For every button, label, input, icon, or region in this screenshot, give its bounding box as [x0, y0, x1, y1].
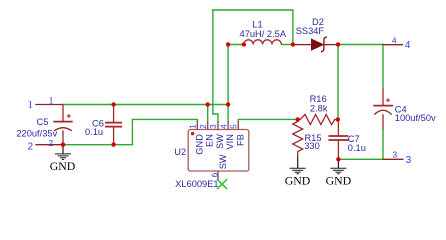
svg-text:SS34F: SS34F	[296, 26, 325, 36]
wire output drop to C4 top	[382, 45, 384, 89]
svg-text:6: 6	[211, 172, 220, 177]
ground symbol under C5	[55, 145, 71, 160]
wire EN drop to pin 2	[207, 105, 209, 122]
pin 4 lead	[227, 121, 229, 130]
capacitor C4	[373, 88, 393, 129]
junction inductor left	[242, 42, 246, 46]
pin 2 lead	[207, 121, 209, 130]
svg-text:1: 1	[49, 97, 54, 107]
svg-text:47uH/ 2.5A: 47uH/ 2.5A	[240, 29, 287, 39]
no-connect X on pin 6	[217, 179, 227, 189]
wire FB pin 5 to divider	[238, 119, 297, 121]
svg-text:220uf/35v: 220uf/35v	[16, 129, 57, 139]
pin 5 lead	[237, 121, 239, 130]
svg-text:C5: C5	[37, 117, 49, 127]
wire C4 bottom	[382, 129, 384, 160]
svg-text:GND: GND	[285, 174, 311, 188]
capacitor C6	[105, 105, 122, 145]
svg-text:4: 4	[219, 124, 228, 129]
junction diode anode	[291, 42, 295, 46]
wire inductor left stub	[228, 44, 244, 46]
inductor L1	[244, 40, 282, 45]
wire top rail SW net	[213, 9, 293, 11]
capacitor C7	[328, 120, 348, 160]
wire SW jog to pin 3	[213, 114, 218, 121]
resistor R16	[298, 115, 338, 125]
svg-text:R16: R16	[310, 94, 327, 104]
junction C5 bottom ground	[61, 143, 65, 147]
svg-text:EN: EN	[205, 134, 215, 147]
svg-text:3: 3	[406, 155, 412, 166]
svg-text:VIN: VIN	[225, 134, 235, 150]
terminal P2 lead	[36, 144, 63, 146]
wire output bottom rail	[338, 158, 383, 160]
junction R16 left FB	[296, 117, 300, 121]
terminal P3 lead	[383, 158, 403, 160]
wire VIN drop to pin 4	[227, 45, 229, 122]
junction C6 top	[111, 102, 115, 106]
svg-text:0.1u: 0.1u	[348, 143, 366, 153]
diode D2	[293, 37, 338, 52]
svg-text:U2: U2	[174, 147, 186, 157]
pin 6 lead	[217, 171, 219, 180]
svg-text:SW: SW	[215, 134, 225, 149]
op-amp U2 XL6009E1 body	[188, 130, 249, 172]
svg-text:2: 2	[199, 124, 208, 129]
svg-text:100uf/50v: 100uf/50v	[395, 113, 436, 123]
ground symbol under C7	[330, 159, 346, 174]
svg-text:0.1u: 0.1u	[85, 127, 103, 137]
terminal P4 lead	[383, 44, 403, 46]
junction C6 bottom	[111, 142, 115, 146]
wire input rail	[63, 104, 229, 106]
svg-text:4: 4	[405, 40, 411, 51]
svg-text:FB: FB	[235, 134, 245, 146]
svg-text:SW: SW	[218, 154, 228, 169]
svg-text:2: 2	[48, 138, 53, 148]
wire output rail	[338, 44, 383, 46]
svg-text:3: 3	[392, 150, 397, 160]
junction VIN/input rail	[226, 102, 230, 106]
junction EN/input rail	[206, 102, 210, 106]
svg-text:XL6009E1: XL6009E1	[175, 179, 218, 189]
pin 3 lead	[217, 121, 219, 130]
svg-text:1: 1	[28, 99, 34, 111]
svg-text:4: 4	[392, 36, 397, 46]
svg-text:5: 5	[230, 124, 239, 129]
junction R16 right	[336, 117, 340, 121]
wire ground rail to pin 1	[63, 119, 197, 144]
wire SW net left vertical	[212, 10, 214, 114]
wire inductor right to anode junction	[282, 44, 293, 46]
terminal P1 lead	[36, 104, 63, 106]
junction diode cathode	[336, 42, 340, 46]
pin 1 marker dot	[191, 132, 194, 135]
junction VIN drop top	[226, 42, 230, 46]
svg-text:3: 3	[209, 124, 218, 129]
svg-text:GND: GND	[194, 134, 204, 155]
wire SW net right drop to diode anode	[292, 10, 294, 45]
svg-text:2: 2	[28, 141, 34, 152]
junction C7 bottom rail	[336, 157, 340, 161]
svg-text:GND: GND	[50, 159, 76, 173]
svg-text:2.8k: 2.8k	[310, 104, 328, 114]
svg-text:330: 330	[304, 141, 320, 151]
svg-text:1: 1	[189, 124, 198, 129]
pin 1 lead	[196, 121, 198, 130]
capacitor C5	[53, 105, 72, 145]
svg-text:GND: GND	[326, 174, 352, 188]
wire feedback drop diode cathode to R16	[337, 45, 339, 120]
resistor R15	[293, 120, 303, 157]
ground symbol under R15	[290, 157, 306, 174]
